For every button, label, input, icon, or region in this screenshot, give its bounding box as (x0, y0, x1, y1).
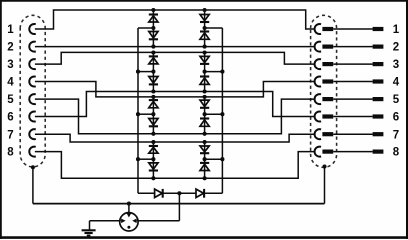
left connector pin 1 contact (29, 24, 35, 34)
GDT left electrode arrow (120, 219, 125, 222)
wire net 6 (35, 92, 315, 117)
svg-text:1: 1 (7, 24, 14, 36)
suppressor diode V3 (left column upper) (149, 56, 158, 64)
left midpoint bus (137, 28, 139, 193)
decoupling diode V18 (196, 189, 204, 198)
svg-text:2: 2 (393, 42, 399, 54)
suppressor diode V6 (left column lower) (149, 119, 158, 127)
right pin 2 cable terminal (373, 45, 384, 49)
PE rail junction dot at GDT (127, 202, 131, 206)
svg-text:3: 3 (393, 59, 399, 71)
right pin 3 lead wire (333, 63, 372, 65)
right connector body junction dot (322, 164, 326, 168)
svg-text:4: 4 (393, 77, 400, 89)
GDT right electrode arrow (133, 219, 138, 222)
wire net 4 (35, 82, 315, 97)
left connector pin 6 contact (29, 112, 35, 122)
suppressor diode V13 (right column upper) (200, 100, 209, 108)
right pin 1 lead wire (333, 28, 372, 30)
right pin 8 cable terminal (373, 150, 384, 154)
right connector pin 8 plug pin (322, 150, 333, 154)
left connector pin 2 contact (29, 42, 35, 52)
right connector pin 6 socket contact (315, 112, 321, 122)
suppressor diode V4 (left column lower) (149, 77, 158, 85)
right pin 4 lead wire (333, 81, 372, 83)
junction dots group 4 (151, 140, 155, 144)
midpoint stub right group 2 (205, 71, 223, 73)
midpoint stub right group 1 (205, 27, 223, 29)
suppressor diode V2 (left column lower) (149, 32, 158, 40)
svg-text:7: 7 (7, 129, 13, 141)
PE equipotential rail (33, 203, 325, 205)
right connector pin 6 plug pin (322, 114, 333, 118)
svg-text:1: 1 (393, 24, 400, 36)
wire between V17 and center node (163, 192, 196, 194)
GDT left electrode wire (90, 220, 121, 222)
suppressor diode V12 (right column lower) (200, 77, 209, 85)
right connector pin 8 socket contact (315, 147, 321, 157)
suppressor diode V14 (right column lower) (200, 119, 209, 127)
wire V18 to right bus (205, 192, 223, 194)
svg-text:3: 3 (7, 59, 13, 71)
right pin 2 lead wire (333, 46, 372, 48)
right diode column wire group2 (204, 53, 206, 92)
left connector pin 5 contact (29, 94, 35, 104)
right connector pin 7 socket contact (315, 129, 321, 139)
svg-text:4: 4 (7, 77, 14, 89)
right pin 6 lead wire (333, 116, 372, 118)
right pin 1 cable terminal (373, 27, 384, 31)
midpoint stub right group 4 (205, 158, 223, 160)
right connector pin 7 plug pin (322, 132, 333, 136)
suppressor diode V15 (right column upper) (200, 146, 209, 153)
bus junction dots (136, 70, 140, 74)
ground symbol (82, 230, 96, 235)
right connector X2 outline (311, 15, 337, 167)
gas discharge tube F1 body (120, 213, 138, 231)
wire net 1 (35, 10, 315, 29)
right midpoint bus (221, 28, 223, 193)
svg-text:2: 2 (7, 42, 13, 54)
ground wire (89, 221, 91, 230)
bottom diode line wire (137, 192, 139, 194)
wire net 7 (35, 134, 315, 142)
left connector pin 7 contact (29, 129, 35, 139)
right connector pin 3 plug pin (322, 62, 333, 66)
left connector X1 outline (20, 15, 45, 167)
svg-text:7: 7 (393, 129, 399, 141)
svg-text:5: 5 (393, 94, 400, 106)
GDT top electrode arrow (127, 212, 130, 216)
right connector pin 2 socket contact (315, 42, 321, 52)
svg-text:8: 8 (7, 147, 14, 159)
suppressor diode V16 (right column lower) (200, 163, 209, 171)
right pin 5 lead wire (333, 98, 372, 100)
right connector pin 5 socket contact (315, 94, 321, 104)
left connector body junction dot (31, 165, 35, 169)
svg-text:5: 5 (7, 94, 14, 106)
right connector pin 4 socket contact (315, 77, 321, 87)
junction dots group 3 (151, 95, 155, 99)
wire net 8 (35, 152, 315, 179)
midpoint stub left group 3 (138, 113, 153, 115)
left diode column wire group2 (152, 53, 154, 92)
right pin 6 cable terminal (373, 114, 384, 118)
right diode column wire group1 (204, 10, 206, 47)
decoupling diode V17 (155, 189, 163, 198)
suppressor diode V10 (right column lower) (200, 32, 209, 40)
right connector pin 3 socket contact (315, 59, 321, 69)
suppressor diode V7 (left column upper) (149, 146, 158, 153)
midpoint stub left group 2 (138, 71, 153, 73)
midpoint stub left group 1 (138, 27, 153, 29)
left connector pin 3 contact (29, 59, 35, 69)
right pin 7 cable terminal (373, 132, 384, 136)
suppressor diode V1 (left column upper) (149, 15, 158, 23)
right pin 4 cable terminal (373, 79, 384, 83)
left connector pin 8 contact (29, 147, 35, 157)
suppressor diode V9 (right column upper) (200, 15, 209, 23)
right connector pin 5 plug pin (322, 97, 333, 101)
wire center node down to gas discharge tube (178, 193, 180, 221)
suppressor diode V11 (right column upper) (200, 56, 209, 64)
right diode column wire lower (204, 97, 206, 134)
border frame (0, 0, 408, 2)
right connector pin 1 plug pin (322, 27, 333, 31)
right pin 3 cable terminal (373, 62, 384, 66)
svg-text:6: 6 (393, 112, 399, 124)
svg-text:6: 6 (7, 112, 13, 124)
right connector pin 1 socket contact (315, 24, 321, 34)
midpoint stub right group 3 (205, 113, 223, 115)
right connector body wire to PE rail (324, 167, 326, 204)
right pin 7 lead wire (333, 133, 372, 135)
left diode column wire group4 (152, 142, 154, 178)
GDT third electrode dot (127, 226, 130, 229)
junction dots group 2 (151, 50, 155, 54)
right connector pin 4 plug pin (322, 79, 333, 83)
suppressor diode V5 (left column upper) (149, 100, 158, 108)
right diode column wire group4 (204, 142, 206, 178)
left connector pin 4 contact (29, 77, 35, 87)
GDT right electrode wire (138, 220, 179, 222)
wire net 3 (35, 52, 315, 64)
GDT top electrode wire (128, 204, 130, 213)
suppressor diode V8 (left column lower) (149, 163, 158, 171)
right pin 5 cable terminal (373, 97, 384, 101)
center node dot on diode line (177, 191, 181, 195)
svg-text:8: 8 (393, 147, 400, 159)
midpoint stub left group 4 (138, 158, 153, 160)
wire net 5 (35, 99, 315, 134)
left diode column wire lower (152, 97, 154, 134)
right connector pin 2 plug pin (322, 45, 333, 49)
right pin 8 lead wire (333, 151, 372, 153)
left connector body wire to PE rail (32, 167, 34, 203)
left diode column wire group1 (152, 10, 154, 47)
junction dots group 1 (151, 8, 155, 12)
wire net 2 (35, 46, 315, 48)
